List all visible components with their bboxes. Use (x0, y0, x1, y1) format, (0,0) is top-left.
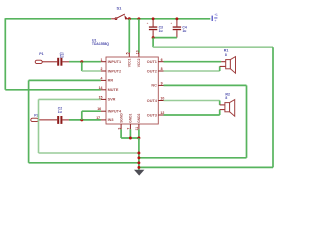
wire SVR vertical pale (38, 99, 40, 153)
wire ground pins bottom horizontal (121, 137, 139, 139)
svg-text:1u: 1u (159, 29, 163, 33)
wire OUT3 (164, 114, 220, 116)
wire junction down to input2 row (81, 62, 83, 71)
capacitor C3 (147, 19, 158, 38)
pin R2 bottom (220, 109, 225, 111)
speaker R1 (226, 57, 236, 74)
supply terminal T1 (212, 13, 218, 23)
svg-text:S1: S1 (117, 6, 123, 11)
pin 5 stub (128, 53, 130, 58)
junction svr-gnd (137, 152, 140, 155)
svg-text:P1: P1 (39, 52, 43, 56)
ground symbol (134, 170, 144, 176)
junction at C3 top (152, 17, 155, 20)
svg-text:6: 6 (161, 58, 163, 62)
svg-text:RR: RR (108, 79, 114, 83)
wire OUT3 jog up (219, 110, 221, 115)
junction nc-gnd (137, 156, 140, 159)
junction gnd1 (129, 137, 132, 140)
wire NC bottom to ground node (139, 157, 247, 159)
capacitor C2 (57, 116, 69, 124)
wire OUT2 jog up (219, 66, 221, 71)
IC U1 TDA1558Q body (106, 57, 158, 124)
wire battery+ rail pre-switch top (5, 18, 111, 20)
svg-text:15: 15 (99, 96, 103, 100)
wire VCC2 vertical to pin 13 (138, 19, 140, 53)
svg-text:R1: R1 (224, 48, 229, 52)
wire OUT4 jog down (219, 101, 221, 105)
wire junction up to input4 row (81, 111, 83, 120)
svg-text:1u: 1u (58, 110, 62, 114)
svg-text:+: + (170, 21, 172, 25)
wire to pin 2 pale (82, 70, 101, 72)
svg-text:14: 14 (99, 86, 103, 90)
bottom pin stubs (121, 124, 139, 129)
capacitor C4 (170, 19, 181, 38)
wire C4 bottom to C3 bottom (153, 37, 177, 39)
junction at switch output x129 (128, 17, 131, 20)
wire ground right vertical (272, 47, 274, 167)
pin R1 bottom (220, 65, 226, 67)
IC pin names left (108, 60, 122, 122)
svg-text:+1: +1 (214, 13, 218, 17)
wire C2 to junction to pin 17 (69, 119, 101, 121)
svg-text:INPUT2: INPUT2 (108, 69, 122, 73)
wire ground pin3 down (120, 129, 122, 138)
pin R1 top (221, 61, 226, 63)
junction main-gnd (137, 166, 140, 169)
junction gnd2 (137, 137, 140, 140)
left pin stubs (101, 62, 106, 120)
svg-text:NC: NC (151, 84, 157, 88)
svg-text:OUT4: OUT4 (147, 99, 158, 103)
svg-text:INPUT1: INPUT1 (108, 60, 122, 64)
wire VCC1 vertical to pin 5 (128, 19, 130, 53)
pin 13 stub (138, 53, 140, 58)
wire OUT4 pale (164, 100, 220, 102)
capacitor C1 (57, 58, 69, 66)
speaker R2 (225, 100, 235, 117)
wire battery+ left vertical (4, 18, 6, 90)
wire RR bottom to ground node (29, 162, 139, 164)
svg-text:INPUT4: INPUT4 (108, 110, 122, 114)
wire RR vertical down (28, 80, 30, 162)
wire VCC rail post-switch (129, 18, 210, 20)
wire OUT2 pale (164, 70, 220, 72)
wire ground top horizontal (153, 46, 273, 48)
svg-text:+: + (214, 19, 216, 23)
svg-text:8: 8 (161, 67, 163, 71)
svg-text:17: 17 (96, 116, 100, 120)
svg-text:1: 1 (101, 58, 103, 62)
wire ground pin11 down (138, 129, 140, 138)
wire to pin 16 (82, 110, 101, 112)
svg-text:TDA1558Q: TDA1558Q (92, 42, 110, 46)
junction at C4 top (175, 17, 178, 20)
svg-text:VCC1: VCC1 (128, 58, 132, 67)
svg-text:1u: 1u (60, 55, 64, 59)
svg-text:1u: 1u (182, 29, 186, 33)
connector P1 (35, 60, 57, 63)
svg-text:13: 13 (135, 50, 139, 54)
connector P2 (31, 118, 57, 121)
svg-text:OUT2: OUT2 (147, 69, 157, 73)
wire RR pin4 left (29, 79, 101, 81)
junction rr-gnd (137, 161, 140, 164)
svg-text:8: 8 (225, 53, 227, 57)
wire SVR bottom to ground node pale (39, 152, 139, 154)
svg-text:OUT3: OUT3 (147, 113, 157, 117)
svg-text:8: 8 (225, 96, 227, 100)
wire NC pin9 right (164, 84, 247, 86)
switch S1 (111, 14, 129, 19)
svg-text:OUT1: OUT1 (147, 60, 157, 64)
wire ground pin7 down (129, 129, 131, 138)
wire SVR pin15 left pale (39, 98, 101, 100)
wire C1 to junction to pin 1 (69, 61, 101, 63)
svg-text:2: 2 (101, 67, 103, 71)
svg-text:+: + (147, 21, 149, 25)
svg-text:IN3: IN3 (108, 118, 114, 122)
junction input1 (80, 60, 83, 63)
svg-text:9: 9 (161, 82, 163, 86)
svg-text:MUTE: MUTE (108, 88, 119, 92)
pin R2 top (220, 104, 225, 106)
right pin stubs (158, 62, 163, 115)
svg-text:4: 4 (101, 77, 103, 81)
left pin numbers (96, 58, 102, 120)
junction at x139 (137, 17, 140, 20)
svg-text:GND1: GND1 (129, 113, 133, 122)
wire MUTE horizontal to pin 14 (5, 89, 101, 91)
wire NC vertical down (246, 85, 248, 157)
right pin numbers (160, 58, 164, 115)
wire ground bottom horizontal (139, 166, 273, 168)
junction at C3 bottom (152, 36, 155, 39)
svg-text:VCC2: VCC2 (137, 58, 141, 67)
wire ground center stem (138, 138, 140, 170)
svg-text:16: 16 (97, 107, 101, 111)
svg-text:SVR: SVR (108, 98, 116, 102)
svg-text:SGND: SGND (119, 113, 123, 123)
wire cap ground down (152, 38, 154, 48)
svg-text:GND2: GND2 (137, 113, 141, 122)
svg-text:5: 5 (126, 52, 130, 54)
IC pin names right (147, 60, 158, 117)
wire OUT1 to speaker R1 (164, 61, 222, 63)
junction input3 (80, 118, 83, 121)
